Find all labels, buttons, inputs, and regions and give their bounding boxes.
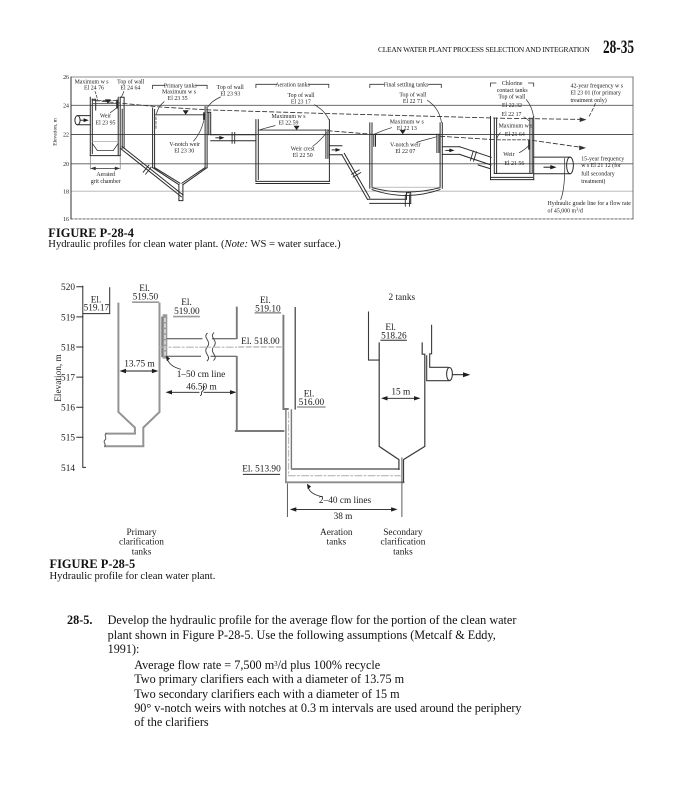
svg-text:Aerated: Aerated: [96, 172, 115, 178]
svg-text:El. 518.00: El. 518.00: [241, 337, 280, 347]
svg-text:519: 519: [61, 313, 75, 323]
svg-text:Chlorine: Chlorine: [502, 81, 523, 87]
pipe final settling to chlorine contact: [442, 147, 491, 169]
axis tick labels (fig 1): [63, 75, 69, 223]
elevation axis (fig 2): [77, 286, 86, 467]
svg-text:519.50: 519.50: [133, 293, 159, 303]
svg-text:Maximum w s: Maximum w s: [499, 123, 534, 129]
svg-text:13.75 m: 13.75 m: [124, 360, 155, 370]
svg-text:contact tanks: contact tanks: [497, 88, 529, 94]
secondary clarifier influent line: [369, 312, 380, 360]
svg-text:clarification: clarification: [119, 537, 164, 548]
problem 28-5 text: [67, 613, 92, 628]
svg-text:26: 26: [63, 75, 69, 81]
flow arrow: [446, 149, 452, 151]
bracket Final settling tanks: [370, 84, 442, 87]
svg-text:519.17: 519.17: [84, 304, 110, 314]
svg-text:2 tanks: 2 tanks: [388, 293, 415, 303]
svg-text:16: 16: [63, 217, 69, 223]
label 42-year frequency ws El 23.01: [571, 82, 624, 104]
dimension 38 m: [293, 508, 395, 510]
bracket Primary tanks: [153, 85, 208, 88]
final tank centre pedestal: [405, 195, 409, 206]
primary tank water surface: [155, 114, 206, 116]
svg-text:tanks: tanks: [132, 547, 152, 557]
svg-text:518: 518: [61, 343, 75, 353]
svg-text:El 22 07: El 22 07: [395, 149, 415, 155]
label Primary clarification tanks: [119, 528, 164, 558]
svg-text:El. 513.90: El. 513.90: [242, 464, 281, 474]
svg-text:El 23 17: El 23 17: [291, 99, 311, 105]
svg-text:Hydraulic grade line for a flo: Hydraulic grade line for a flow rate: [548, 200, 632, 207]
pipe primary to aeration: [211, 135, 256, 141]
label Secondary clarification tanks: [380, 528, 425, 558]
svg-text:treatment): treatment): [581, 178, 605, 185]
svg-text:520: 520: [61, 283, 75, 293]
secondary effluent trough and outlet pipe: [427, 325, 453, 380]
svg-text:El 22 17: El 22 17: [502, 112, 522, 118]
dimension extension lines: [287, 458, 402, 517]
svg-text:15-year frequency: 15-year frequency: [581, 155, 624, 162]
svg-text:El 23 30: El 23 30: [174, 148, 194, 154]
svg-text:w s El 21 12 (for: w s El 21 12 (for: [581, 162, 621, 169]
final tank centre column: [407, 193, 411, 204]
svg-text:46.50 m: 46.50 m: [186, 382, 217, 392]
aeration water surface dashes El 518: [239, 346, 282, 348]
svg-text:38 m: 38 m: [334, 512, 354, 522]
svg-text:of 45,000 m3/d: of 45,000 m3/d: [548, 207, 583, 215]
page number 28-35: [603, 37, 634, 59]
svg-text:Aeration: Aeration: [320, 528, 353, 538]
leader arrow for 1-50 cm line: [168, 360, 181, 369]
WS symbol primary: [183, 110, 189, 114]
plot right border: [632, 77, 634, 219]
final settling tank curved bottom: [372, 188, 440, 192]
svg-text:15 m: 15 m: [391, 388, 411, 398]
label 15-year frequency ws El 21.12: [581, 155, 624, 185]
grit chamber dimension with arrows: [90, 157, 120, 170]
svg-text:Top of wall: Top of wall: [498, 93, 525, 100]
svg-text:El 22.32: El 22.32: [502, 103, 522, 109]
pipe break S-curves: [206, 333, 209, 360]
WS symbol final settling: [400, 130, 406, 134]
aerated grit chamber walls: [90, 97, 120, 155]
elevation gridlines (fig 1): [71, 76, 633, 78]
pipe centreline dash-dot at El 518: [160, 346, 237, 348]
grit chamber sediment hopper: [92, 140, 118, 142]
aeration tank walls (fig 1): [256, 120, 330, 184]
primary influent baffle dashes: [155, 117, 157, 129]
svg-text:grit chamber: grit chamber: [91, 179, 121, 185]
pipe junction marks: [143, 165, 151, 174]
svg-text:V-notch weir: V-notch weir: [169, 142, 200, 148]
dimension 46.50 m arrows: [169, 391, 234, 393]
pipe aeration to final settling: [329, 146, 410, 204]
svg-text:515: 515: [61, 434, 75, 444]
WS symbol grit chamber: [105, 99, 111, 103]
svg-text:516: 516: [61, 404, 75, 414]
svg-text:Weir crest: Weir crest: [291, 147, 315, 153]
grit chamber effluent weir: [116, 100, 118, 109]
svg-text:24: 24: [63, 104, 69, 110]
50 cm line pipe (primary to aeration): [167, 339, 236, 357]
caption figure P-28-5: [50, 557, 136, 572]
svg-text:519.00: 519.00: [174, 307, 200, 317]
svg-text:514: 514: [61, 464, 75, 474]
effluent flow arrow: [453, 374, 465, 376]
svg-text:Primary: Primary: [127, 528, 157, 538]
svg-text:22: 22: [63, 133, 69, 139]
svg-text:Maximum w s: Maximum w s: [75, 79, 110, 85]
svg-text:El 22 71: El 22 71: [403, 99, 423, 105]
svg-text:tanks: tanks: [326, 538, 346, 548]
primary sludge pipe break squiggle: [104, 434, 106, 447]
influent channel line El 519.17: [83, 288, 110, 314]
final settling tank water surface: [372, 133, 440, 135]
pipe junction marks: [352, 170, 361, 177]
pipe junction marks: [471, 151, 477, 161]
svg-text:Top of wall: Top of wall: [287, 92, 314, 99]
svg-text:Top of wall: Top of wall: [217, 84, 244, 91]
chlorine tank water surface (dashed): [498, 139, 530, 141]
svg-text:Final settling tanks: Final settling tanks: [384, 83, 430, 89]
svg-text:tanks: tanks: [393, 547, 413, 557]
influent pipe into grit chamber: [75, 116, 90, 125]
svg-text:treatment only): treatment only): [571, 97, 607, 104]
svg-text:El 23 01 (for primary: El 23 01 (for primary: [571, 90, 621, 97]
svg-text:Weir: Weir: [100, 114, 111, 120]
flow arrow: [216, 137, 222, 139]
primary effluent trough (gray bar with white dashes): [163, 317, 168, 357]
svg-text:Top of wall: Top of wall: [117, 78, 144, 85]
svg-text:El 21 64: El 21 64: [505, 132, 525, 138]
upper hydraulic grade line (dashed): [95, 101, 582, 120]
label Hydraulic grade line: [548, 200, 632, 215]
label Aeration tanks: [320, 528, 353, 548]
primary tank walls: [153, 107, 208, 201]
primary clarifier walls: [105, 304, 160, 447]
svg-text:Maximum w s: Maximum w s: [390, 120, 425, 126]
svg-text:El 22 13: El 22 13: [397, 126, 417, 132]
svg-text:20: 20: [63, 162, 69, 168]
svg-text:Secondary: Secondary: [383, 528, 423, 538]
lower hydraulic grade line (dashed): [328, 131, 581, 148]
flow arrow: [332, 149, 338, 151]
grit chamber outlet trough and downcomer: [120, 97, 124, 148]
chlorine contact tank walls: [491, 116, 534, 179]
pipe junction marks: [232, 132, 235, 143]
svg-text:Maximum w s: Maximum w s: [271, 114, 306, 120]
aeration water surface (fig 1): [258, 129, 326, 131]
svg-text:El 23 95: El 23 95: [96, 120, 116, 126]
svg-text:Maximum w s: Maximum w s: [162, 90, 197, 96]
final settling tank walls: [370, 123, 443, 188]
bracket Chlorine contact tanks: [491, 83, 534, 86]
svg-text:El 23 35: El 23 35: [168, 96, 188, 102]
svg-text:El 22 50: El 22 50: [293, 153, 313, 159]
svg-text:El 24 76: El 24 76: [84, 86, 104, 92]
axis tick labels (fig 2): [61, 283, 75, 474]
svg-text:1–50 cm line: 1–50 cm line: [177, 370, 226, 380]
leader arrow for 2-40 cm lines: [308, 488, 322, 497]
grit chamber water surface (dashed): [93, 100, 117, 102]
svg-text:clarification: clarification: [380, 537, 425, 548]
svg-text:Top of wall: Top of wall: [399, 91, 426, 98]
running head: [0, 45, 590, 54]
40 cm lines pipe run at bottom: [292, 468, 399, 470]
svg-text:Elevation, m: Elevation, m: [53, 117, 59, 145]
svg-text:2–40 cm lines: 2–40 cm lines: [319, 496, 372, 506]
aeration outer right wall: [294, 308, 296, 409]
svg-text:El 21 56: El 21 56: [504, 161, 524, 167]
aeration tank walls: [236, 308, 288, 431]
bracket Aeration tanks: [256, 84, 329, 87]
pipe grit chamber to primary tank: [120, 146, 183, 196]
svg-text:42-year frequency w s: 42-year frequency w s: [571, 82, 624, 89]
primary effluent trough: [207, 112, 211, 135]
secondary clarifier walls: [379, 343, 425, 482]
chlorine tank weir: [528, 140, 530, 150]
svg-text:El 22.59: El 22.59: [279, 120, 299, 126]
svg-text:Aeration tanks: Aeration tanks: [275, 83, 310, 89]
svg-text:El 24 64: El 24 64: [120, 86, 140, 92]
caption figure P-28-4: [48, 226, 134, 241]
downcomer channel from aeration: [286, 410, 292, 482]
svg-text:full secondary: full secondary: [581, 170, 615, 177]
WS symbol aeration (fig 1): [294, 126, 300, 130]
chlorine tank effluent pipe: [534, 157, 574, 174]
svg-text:V-notch weir: V-notch weir: [390, 143, 421, 149]
elevation axis (fig 1): [70, 77, 72, 219]
effluent flow arrow (fig 1): [544, 166, 552, 168]
influent flow arrow: [81, 119, 86, 121]
primary v-notch weir: [203, 112, 205, 120]
svg-text:El 23 93: El 23 93: [220, 91, 240, 97]
svg-text:Weir: Weir: [503, 152, 514, 158]
svg-text:18: 18: [63, 189, 69, 195]
svg-text:Elevation, m: Elevation, m: [54, 353, 64, 401]
